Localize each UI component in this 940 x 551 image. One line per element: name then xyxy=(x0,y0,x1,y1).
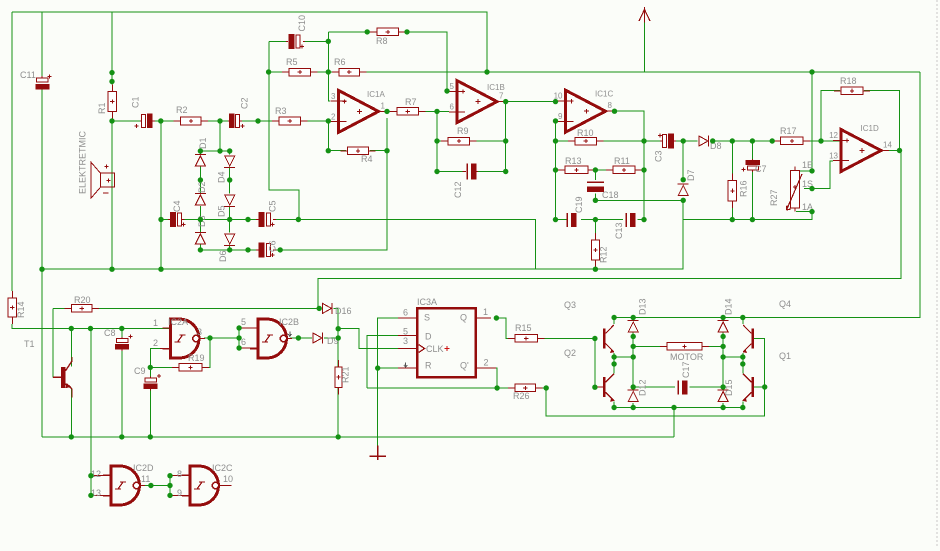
svg-text:R10: R10 xyxy=(577,128,594,138)
svg-text:7: 7 xyxy=(499,92,504,101)
svg-text:R9: R9 xyxy=(457,126,469,136)
svg-text:Q: Q xyxy=(460,313,467,323)
svg-text:R19: R19 xyxy=(188,353,205,363)
svg-text:ELEKTRETMIC: ELEKTRETMIC xyxy=(78,130,88,194)
svg-text:10: 10 xyxy=(223,474,233,484)
svg-text:Q4: Q4 xyxy=(779,299,791,309)
svg-text:2: 2 xyxy=(484,358,489,368)
svg-text:R20: R20 xyxy=(74,295,91,305)
svg-text:Q1: Q1 xyxy=(779,351,791,361)
svg-text:IC3A: IC3A xyxy=(417,297,437,307)
svg-text:D16: D16 xyxy=(335,306,352,316)
svg-text:R8: R8 xyxy=(376,36,388,46)
svg-text:R11: R11 xyxy=(614,156,630,166)
svg-text:IC1B: IC1B xyxy=(487,83,505,92)
svg-text:D4: D4 xyxy=(217,171,227,183)
svg-text:R12: R12 xyxy=(599,246,609,263)
svg-text:S: S xyxy=(424,313,430,323)
svg-text:IC1A: IC1A xyxy=(367,90,385,99)
svg-text:IC2C: IC2C xyxy=(212,463,233,473)
svg-text:IC2D: IC2D xyxy=(133,463,154,473)
svg-text:IC2B: IC2B xyxy=(279,317,299,327)
svg-text:C11: C11 xyxy=(20,70,36,80)
svg-text:R27: R27 xyxy=(769,189,779,206)
svg-text:14: 14 xyxy=(883,141,892,150)
svg-text:Q': Q' xyxy=(460,360,469,370)
svg-text:C12: C12 xyxy=(453,181,463,198)
svg-text:T1: T1 xyxy=(24,339,35,349)
svg-text:5: 5 xyxy=(403,327,408,337)
svg-text:C17: C17 xyxy=(681,361,691,378)
svg-text:MOTOR: MOTOR xyxy=(670,352,704,362)
svg-text:C9: C9 xyxy=(134,366,146,376)
svg-text:9: 9 xyxy=(177,488,182,498)
svg-text:R18: R18 xyxy=(840,76,857,86)
svg-text:D2: D2 xyxy=(197,181,207,193)
svg-text:C8: C8 xyxy=(104,328,116,338)
svg-text:C2: C2 xyxy=(240,97,250,109)
svg-text:R21: R21 xyxy=(341,366,351,383)
svg-text:R1: R1 xyxy=(97,102,107,114)
svg-text:C10: C10 xyxy=(297,15,307,32)
svg-text:6: 6 xyxy=(403,308,408,318)
svg-text:8: 8 xyxy=(608,101,613,110)
svg-text:IC2A: IC2A xyxy=(168,317,188,327)
svg-text:9: 9 xyxy=(558,112,563,121)
svg-text:D: D xyxy=(425,332,432,342)
svg-text:3: 3 xyxy=(197,327,202,337)
svg-text:R5: R5 xyxy=(286,57,298,67)
svg-text:C5: C5 xyxy=(268,200,278,212)
svg-text:R3: R3 xyxy=(275,106,287,116)
svg-text:R17: R17 xyxy=(780,126,797,136)
svg-text:1: 1 xyxy=(381,101,386,110)
svg-text:CLK: CLK xyxy=(426,344,444,354)
svg-text:2: 2 xyxy=(331,112,336,121)
svg-text:6: 6 xyxy=(450,103,455,112)
svg-text:Q2: Q2 xyxy=(564,348,576,358)
svg-text:R: R xyxy=(425,360,432,370)
svg-text:R15: R15 xyxy=(515,323,532,333)
svg-text:D7: D7 xyxy=(686,169,696,181)
svg-text:D1: D1 xyxy=(198,137,208,149)
svg-text:1: 1 xyxy=(483,307,488,317)
svg-text:3: 3 xyxy=(403,336,408,346)
svg-text:Q3: Q3 xyxy=(564,300,576,310)
svg-text:R26: R26 xyxy=(513,391,530,401)
svg-text:5: 5 xyxy=(241,317,246,327)
svg-text:C4: C4 xyxy=(172,200,182,212)
svg-text:2: 2 xyxy=(153,338,158,348)
svg-text:R7: R7 xyxy=(405,97,417,107)
svg-text:8: 8 xyxy=(177,469,182,479)
svg-text:R2: R2 xyxy=(176,105,188,115)
svg-text:1: 1 xyxy=(153,318,158,328)
svg-text:13: 13 xyxy=(829,152,838,161)
svg-text:12: 12 xyxy=(829,131,838,140)
svg-text:IC1D: IC1D xyxy=(861,124,879,133)
svg-text:R6: R6 xyxy=(334,57,346,67)
svg-text:D6: D6 xyxy=(218,250,228,262)
svg-text:D14: D14 xyxy=(724,298,734,315)
svg-text:D5: D5 xyxy=(217,205,227,217)
svg-text:C1: C1 xyxy=(131,96,141,108)
svg-text:D12: D12 xyxy=(638,379,648,396)
svg-text:C19: C19 xyxy=(574,196,584,213)
svg-text:R16: R16 xyxy=(739,180,749,197)
svg-text:11: 11 xyxy=(141,474,150,484)
svg-text:C7: C7 xyxy=(755,164,767,174)
svg-text:C13: C13 xyxy=(614,222,624,239)
svg-text:C3: C3 xyxy=(654,150,664,162)
svg-text:C6: C6 xyxy=(268,240,278,252)
svg-text:R13: R13 xyxy=(565,156,582,166)
svg-text:D13: D13 xyxy=(638,298,648,315)
svg-text:C18: C18 xyxy=(602,190,619,200)
svg-text:5: 5 xyxy=(450,82,455,91)
svg-text:R14: R14 xyxy=(16,301,26,318)
svg-text:R4: R4 xyxy=(361,154,373,164)
svg-text:3: 3 xyxy=(331,92,336,101)
svg-text:IC1C: IC1C xyxy=(595,90,613,99)
